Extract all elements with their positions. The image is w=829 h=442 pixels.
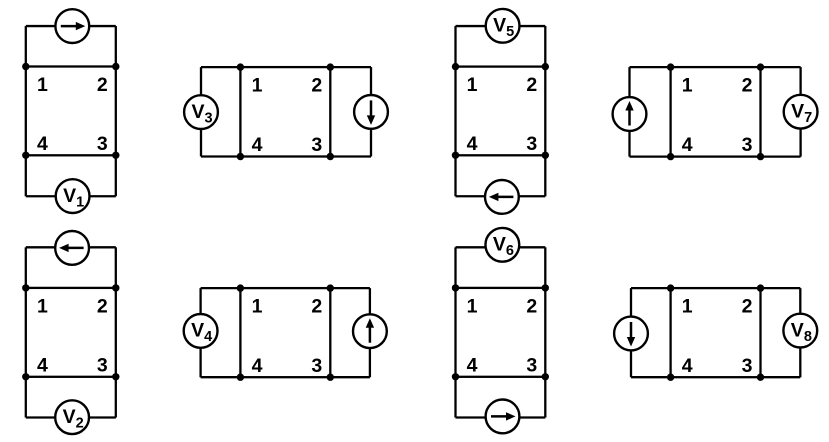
junction node (pin 4) of N2 xyxy=(22,373,29,380)
wire: N3 bottom horizontal (left segment) xyxy=(201,155,240,157)
junction node (pin 4) of N5 xyxy=(452,152,459,159)
voltmeter V3 xyxy=(184,95,218,129)
junction node (pin 1) of N8 xyxy=(667,284,674,291)
wire: N4 left vertical xyxy=(199,288,201,377)
junction node (pin 1) of N3 xyxy=(237,63,244,70)
svg-text:1: 1 xyxy=(467,295,478,317)
svg-text:3: 3 xyxy=(311,355,322,377)
svg-text:4: 4 xyxy=(682,134,693,156)
current source (arrow up) of N4 xyxy=(353,314,387,348)
junction node (pin 2) of N1 xyxy=(112,63,119,70)
wire: N5 right vertical (lower segment) xyxy=(544,155,546,196)
junction node (pin 1) of N2 xyxy=(22,284,29,291)
junction node (pin 2) of N3 xyxy=(327,63,334,70)
two-port network box N8 xyxy=(671,288,761,377)
voltmeter V4 xyxy=(184,314,218,348)
junction node (pin 4) of N6 xyxy=(452,373,459,380)
wire: N6 right vertical (upper segment) xyxy=(544,247,546,288)
wire: N8 right vertical xyxy=(799,288,801,377)
svg-text:3: 3 xyxy=(742,355,753,377)
current source (arrow right) of N1 xyxy=(55,9,89,43)
two-port network box N3 xyxy=(240,67,330,156)
svg-text:4: 4 xyxy=(467,354,478,376)
wire: N2 top horizontal xyxy=(26,246,116,248)
svg-text:4: 4 xyxy=(252,134,263,156)
svg-text:2: 2 xyxy=(311,75,322,97)
junction node (pin 4) of N8 xyxy=(667,374,674,381)
wire: N4 bottom horizontal (left segment) xyxy=(201,376,241,378)
current source (arrow left) of N5 xyxy=(485,180,519,214)
svg-text:2: 2 xyxy=(97,74,108,96)
wire: N1 left vertical (upper segment) xyxy=(25,26,27,66)
svg-text:3: 3 xyxy=(97,133,108,155)
junction node (pin 2) of N8 xyxy=(757,284,764,291)
two-port network box N4 xyxy=(240,288,330,377)
junction node (pin 4) of N3 xyxy=(237,153,244,160)
wire: N2 right vertical (lower segment) xyxy=(115,377,117,418)
two-port network box N7 xyxy=(671,67,761,157)
junction node (pin 3) of N3 xyxy=(327,153,334,160)
current source (arrow up) of N7 xyxy=(613,97,647,131)
junction node (pin 2) of N5 xyxy=(542,63,549,70)
junction node (pin 4) of N1 xyxy=(22,152,29,159)
svg-text:4: 4 xyxy=(37,133,48,155)
wire: N7 top horizontal (left segment) xyxy=(630,66,671,68)
wire: N8 top horizontal (left segment) xyxy=(631,287,671,289)
wire: N8 bottom horizontal (left segment) xyxy=(631,376,671,378)
junction node (pin 1) of N6 xyxy=(452,284,459,291)
voltmeter V5 xyxy=(486,9,520,43)
svg-text:2: 2 xyxy=(742,75,753,97)
wire: N6 right vertical (lower segment) xyxy=(544,377,546,418)
wire: N5 bottom horizontal xyxy=(456,195,546,197)
svg-text:2: 2 xyxy=(97,295,108,317)
junction node (pin 4) of N4 xyxy=(237,374,244,381)
wire: N7 bottom horizontal (left segment) xyxy=(630,155,671,157)
two-port network box N6 xyxy=(456,288,546,377)
current source (arrow left) of N2 xyxy=(55,231,89,265)
wire: N2 left vertical (lower segment) xyxy=(25,377,27,418)
wire: N2 left vertical (upper segment) xyxy=(25,247,27,288)
svg-text:3: 3 xyxy=(742,134,753,156)
current source (arrow right) of N6 xyxy=(486,400,520,434)
junction node (pin 1) of N4 xyxy=(237,284,244,291)
junction node (pin 3) of N8 xyxy=(757,374,764,381)
svg-text:3: 3 xyxy=(97,354,108,376)
svg-text:1: 1 xyxy=(252,75,263,97)
svg-text:2: 2 xyxy=(742,296,753,318)
svg-text:3: 3 xyxy=(526,133,537,155)
svg-text:4: 4 xyxy=(682,355,693,377)
current source (arrow down) of N8 xyxy=(614,317,648,351)
svg-text:4: 4 xyxy=(467,133,478,155)
junction node (pin 2) of N6 xyxy=(542,284,549,291)
wire: N4 top horizontal (left segment) xyxy=(201,287,241,289)
svg-text:1: 1 xyxy=(252,296,263,318)
wire: N3 top horizontal (right segment) xyxy=(330,66,371,68)
wire: N1 top horizontal xyxy=(26,25,116,27)
wire: N1 bottom horizontal xyxy=(26,195,116,197)
wire: N6 bottom horizontal xyxy=(456,416,546,418)
svg-text:1: 1 xyxy=(37,74,48,96)
junction node (pin 2) of N7 xyxy=(757,63,764,70)
junction node (pin 4) of N7 xyxy=(667,153,674,160)
svg-text:4: 4 xyxy=(37,354,48,376)
svg-text:4: 4 xyxy=(252,355,263,377)
wire: N3 bottom horizontal (right segment) xyxy=(330,155,371,157)
two-port network box N2 xyxy=(26,288,116,377)
voltmeter V2 xyxy=(55,400,89,434)
voltmeter V1 xyxy=(56,179,90,213)
voltmeter V8 xyxy=(783,314,817,348)
current source (arrow down) of N3 xyxy=(354,95,388,129)
wire: N2 right vertical (upper segment) xyxy=(115,247,117,288)
svg-text:1: 1 xyxy=(682,75,693,97)
wire: N1 right vertical (upper segment) xyxy=(115,26,117,66)
wire: N7 top horizontal (right segment) xyxy=(761,66,801,68)
two-port network box N5 xyxy=(456,67,546,156)
wire: N8 bottom horizontal (right segment) xyxy=(761,376,801,378)
wire: N1 left vertical (lower segment) xyxy=(25,155,27,196)
wire: N3 right vertical xyxy=(370,67,372,156)
junction node (pin 3) of N6 xyxy=(542,373,549,380)
junction node (pin 3) of N1 xyxy=(112,152,119,159)
voltmeter V6 xyxy=(485,228,519,262)
wire: N4 bottom horizontal (right segment) xyxy=(330,376,370,378)
junction node (pin 3) of N4 xyxy=(327,374,334,381)
wire: N5 right vertical (upper segment) xyxy=(544,26,546,67)
wire: N6 top horizontal xyxy=(456,246,546,248)
svg-text:1: 1 xyxy=(467,74,478,96)
svg-text:2: 2 xyxy=(526,74,537,96)
wire: N4 top horizontal (right segment) xyxy=(330,287,370,289)
wire: N5 top horizontal xyxy=(456,25,546,27)
voltmeter V7 xyxy=(784,95,818,129)
wire: N6 left vertical (lower segment) xyxy=(454,377,456,418)
wire: N5 left vertical (lower segment) xyxy=(454,155,456,196)
junction node (pin 1) of N5 xyxy=(452,63,459,70)
svg-text:2: 2 xyxy=(526,295,537,317)
wire: N3 top horizontal (left segment) xyxy=(201,66,240,68)
wire: N7 right vertical xyxy=(799,67,801,157)
junction node (pin 3) of N2 xyxy=(112,373,119,380)
wire: N7 bottom horizontal (right segment) xyxy=(761,155,801,157)
junction node (pin 3) of N5 xyxy=(542,152,549,159)
junction node (pin 3) of N7 xyxy=(757,153,764,160)
wire: N6 left vertical (upper segment) xyxy=(454,247,456,288)
svg-text:2: 2 xyxy=(311,296,322,318)
wire: N7 left vertical xyxy=(628,67,630,157)
junction node (pin 2) of N4 xyxy=(327,284,334,291)
junction node (pin 1) of N7 xyxy=(667,63,674,70)
wire: N1 right vertical (lower segment) xyxy=(115,155,117,196)
wire: N8 left vertical xyxy=(630,288,632,377)
wire: N8 top horizontal (right segment) xyxy=(761,287,801,289)
junction node (pin 1) of N1 xyxy=(22,63,29,70)
svg-text:3: 3 xyxy=(526,354,537,376)
wire: N5 left vertical (upper segment) xyxy=(454,26,456,67)
junction node (pin 2) of N2 xyxy=(112,284,119,291)
svg-text:1: 1 xyxy=(37,295,48,317)
svg-text:1: 1 xyxy=(682,296,693,318)
two-port network box N1 xyxy=(26,67,116,156)
wire: N4 right vertical xyxy=(369,288,371,377)
wire: N3 left vertical xyxy=(200,67,202,156)
wire: N2 bottom horizontal xyxy=(26,416,116,418)
svg-text:3: 3 xyxy=(311,134,322,156)
